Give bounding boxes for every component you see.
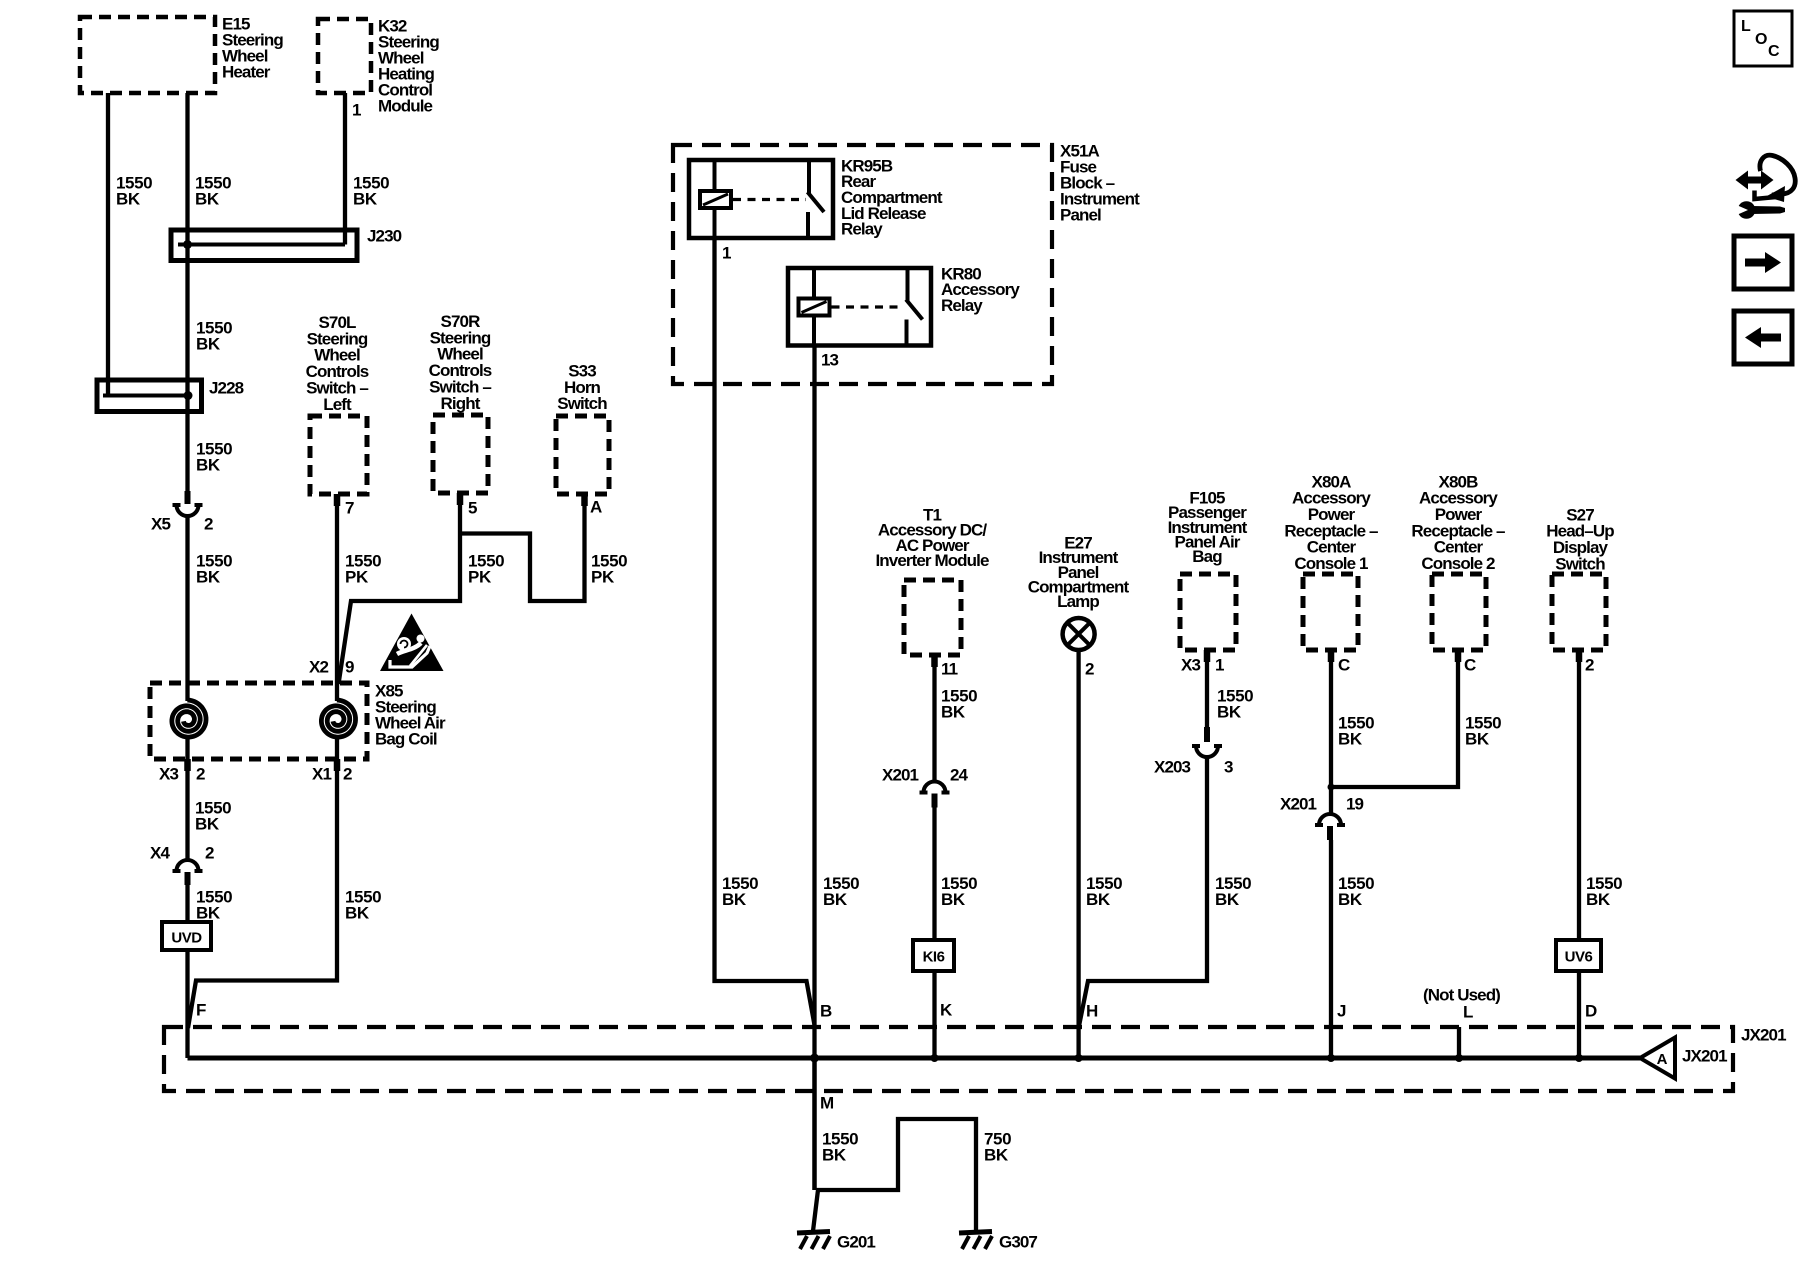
pin stub F105 — [1204, 650, 1211, 662]
label wire 1550 BK (below J230) — [196, 318, 232, 353]
pin stub X80A — [1328, 650, 1335, 662]
svg-text:UV6: UV6 — [1565, 949, 1593, 966]
label JX201 (right of triangle) — [1682, 1046, 1727, 1065]
wire 750 BK to G307 (step) — [816, 1119, 976, 1233]
svg-text:1: 1 — [352, 100, 361, 119]
label S27 — [1546, 505, 1614, 573]
svg-text:3: 3 — [1224, 757, 1233, 776]
ground G307 — [959, 1232, 992, 1250]
label S70R — [429, 312, 492, 413]
label pin 2 at X3 — [196, 764, 205, 783]
component T1 Accessory DC/AC Power Inverter Module (dashed box) — [904, 580, 961, 655]
wire 1550 BK from T1 pin 11 to X201 — [932, 655, 936, 781]
relay KR80 Accessory Relay — [788, 268, 931, 346]
label X201 (T1 branch) — [882, 765, 919, 784]
svg-text:BK: BK — [195, 814, 220, 833]
svg-text:JX201: JX201 — [1741, 1025, 1786, 1044]
label wire 1550 PK (S70L) — [345, 551, 381, 586]
bus wire inside JX201 — [188, 1056, 1641, 1061]
svg-text:(Not Used): (Not Used) — [1423, 985, 1500, 1004]
label E27 — [1028, 533, 1130, 611]
svg-text:19: 19 — [1346, 794, 1364, 813]
component X80A Accessory Power Receptacle - Center Console 1 (dashed box) — [1303, 574, 1358, 650]
wire 1550 BK from E27 pin 2 to cavity H — [1076, 650, 1080, 1058]
wire from UV6 to JX201 cavity D — [1577, 971, 1581, 1058]
label pin 3 at X203 — [1224, 757, 1233, 776]
svg-text:B: B — [820, 1001, 832, 1020]
label X51A — [1060, 141, 1140, 224]
component F105 Passenger Instrument Panel Air Bag (dashed box) — [1180, 574, 1236, 650]
svg-text:Relay: Relay — [841, 220, 883, 239]
coil symbol right (clockspring) — [321, 700, 355, 737]
icon forward arrow box — [1734, 236, 1792, 289]
relay KR95B Rear Compartment Lid Release Relay — [689, 160, 833, 238]
triangle connector A JX201 — [1640, 1038, 1675, 1079]
label X1 (X85 right pin) — [312, 764, 331, 783]
junction dot at cavity J — [1327, 1054, 1335, 1062]
svg-text:Switch: Switch — [557, 394, 607, 413]
wire 1550 BK from F105 to X203 — [1205, 650, 1209, 727]
pin 2 of S27 — [1585, 655, 1594, 674]
svg-text:BK: BK — [345, 903, 370, 922]
wire 1550 BK from X4 to UVD — [185, 885, 189, 922]
splice pack J228 (box) — [97, 380, 202, 412]
svg-text:BK: BK — [353, 189, 378, 208]
label KR95B — [841, 156, 943, 238]
svg-text:2: 2 — [1085, 659, 1094, 678]
svg-text:PK: PK — [468, 567, 492, 586]
coil symbol left (clockspring) — [172, 700, 206, 737]
svg-text:1: 1 — [722, 243, 731, 262]
junction dot X80B joins X80A wire — [1328, 784, 1335, 791]
label wire 1550 BK (to G201) — [822, 1129, 858, 1164]
svg-text:X1: X1 — [312, 764, 331, 783]
wire 1550 BK from X203 to cavity H — [1079, 757, 1207, 1028]
svg-text:G201: G201 — [837, 1232, 875, 1251]
connector X203 (female cup) — [1192, 746, 1222, 757]
svg-text:X2: X2 — [309, 657, 328, 676]
component E15 Steering Wheel Heater (dashed box) — [80, 17, 215, 93]
svg-text:BK: BK — [196, 903, 221, 922]
label pin 2 at X1 — [343, 764, 352, 783]
svg-text:BK: BK — [1465, 729, 1490, 748]
wire 1550 BK from KR80 pin 13 to cavity B and G201 — [812, 346, 816, 1191]
svg-text:D: D — [1585, 1001, 1597, 1020]
svg-text:2: 2 — [196, 764, 205, 783]
svg-text:11: 11 — [941, 659, 958, 678]
component X80B Accessory Power Receptacle - Center Console 2 (dashed box) — [1432, 574, 1486, 650]
label wire 750 BK — [984, 1129, 1011, 1164]
label wire 1550 PK (S33) — [591, 551, 627, 586]
svg-text:13: 13 — [821, 350, 839, 369]
pin 1 of K32 — [352, 100, 361, 119]
svg-text:Console 2: Console 2 — [1421, 554, 1495, 573]
cavity letter B — [820, 1001, 832, 1020]
svg-text:O: O — [1755, 31, 1767, 48]
svg-text:BK: BK — [196, 455, 221, 474]
wire 1550 BK from K32 pin 1 to J230 — [343, 93, 347, 245]
svg-text:BK: BK — [196, 567, 221, 586]
label pin 2 at X4 — [205, 843, 214, 862]
svg-text:BK: BK — [1338, 729, 1363, 748]
svg-text:X3: X3 — [1181, 655, 1200, 674]
connector X203 (male stub) — [1204, 727, 1210, 742]
label G307 — [999, 1232, 1037, 1251]
component S27 Head-Up Display Switch (dashed box) — [1552, 574, 1606, 650]
svg-text:A: A — [590, 497, 602, 516]
label wire 1550 BK (X1 branch) — [345, 887, 381, 922]
label wire 1550 BK (KR95B wire) — [722, 874, 758, 909]
wire 1550 BK from S27 pin 2 to UV6 — [1577, 650, 1581, 940]
svg-text:PK: PK — [345, 567, 369, 586]
label G201 — [837, 1232, 875, 1251]
svg-text:X201: X201 — [1280, 794, 1317, 813]
svg-text:Lamp: Lamp — [1057, 592, 1099, 611]
svg-text:Right: Right — [441, 394, 481, 413]
junction dot at cavity H — [1075, 1054, 1083, 1062]
label (Not Used) — [1423, 985, 1500, 1004]
wire 1550 BK from X80B pin C joining X80A wire — [1331, 650, 1458, 787]
svg-text:Panel: Panel — [1060, 205, 1101, 224]
junction dot at cavity D — [1575, 1054, 1583, 1062]
svg-text:X3: X3 — [159, 764, 178, 783]
svg-text:BK: BK — [823, 890, 848, 909]
option code UV6 (box) — [1556, 940, 1601, 971]
component X51A Fuse Block - Instrument Panel (dashed box) — [673, 145, 1052, 384]
label X201 (X80A branch) — [1280, 794, 1317, 813]
pin 1 of KR95B — [722, 243, 731, 262]
pin stub X80B — [1455, 650, 1462, 662]
pin 11 of T1 — [941, 659, 958, 678]
svg-text:PK: PK — [591, 567, 615, 586]
svg-text:J230: J230 — [367, 226, 402, 245]
svg-text:7: 7 — [345, 498, 354, 517]
label pin 1 at F105 X3 — [1215, 655, 1224, 674]
svg-text:UVD: UVD — [171, 930, 202, 947]
wire 1550 BK from E15 right pin down to X5 (main ground wire) — [185, 93, 189, 504]
svg-text:BK: BK — [1215, 890, 1240, 909]
label X85 — [375, 681, 446, 748]
svg-text:BK: BK — [941, 702, 966, 721]
label X80B — [1411, 472, 1505, 573]
connector X5 (female cup) — [173, 505, 203, 516]
svg-text:Inverter Module: Inverter Module — [875, 551, 989, 570]
svg-text:BK: BK — [116, 189, 141, 208]
label KR80 — [941, 264, 1020, 315]
svg-text:Bag Coil: Bag Coil — [375, 729, 437, 748]
pin stub X85 X1 — [334, 759, 341, 771]
svg-text:2: 2 — [343, 764, 352, 783]
label X203 — [1154, 757, 1191, 776]
label pin 2 at X5 — [204, 514, 213, 533]
label wire 1550 BK (below X4) — [196, 887, 232, 922]
svg-text:C: C — [1338, 655, 1350, 674]
wire 1550 BK from X5 to X85 coil — [185, 516, 189, 701]
connector JX201 (dashed box) — [164, 1027, 1733, 1091]
junction dot at cavity B — [810, 1054, 819, 1063]
connector X201 (male stub, X80A branch) — [1327, 826, 1333, 840]
label E15 — [222, 14, 283, 81]
svg-text:JX201: JX201 — [1682, 1046, 1727, 1065]
svg-text:BK: BK — [196, 334, 221, 353]
label T1 — [875, 505, 989, 570]
junction dot in J230 — [183, 240, 192, 249]
wire 1550 BK from X80A pin C to X201 — [1329, 650, 1333, 813]
wire 1550 PK from S33 pin A join to S70R wire — [462, 494, 585, 601]
junction dot in J228 — [184, 391, 193, 400]
label wire 1550 BK (X80A) — [1338, 713, 1374, 748]
label wire 1550 BK (F105 lower) — [1215, 874, 1251, 909]
label wire 1550 BK (X80B) — [1465, 713, 1501, 748]
label wire 1550 BK (below J228) — [196, 439, 232, 474]
option code UVD (box) — [162, 922, 211, 950]
pin stub S70R — [457, 493, 464, 505]
label wire 1550 BK (E15 right) — [195, 173, 231, 208]
wire from KI6 to JX201 cavity K — [932, 971, 936, 1058]
svg-text:K: K — [940, 1000, 953, 1019]
label J228 — [209, 378, 244, 397]
connector X201 (female cup, T1 branch) — [920, 782, 950, 793]
connector X4 (female cup) — [173, 860, 203, 871]
label S33 — [557, 361, 607, 413]
pin 13 of KR80 — [821, 350, 839, 369]
component S70L Steering Wheel Controls Switch - Left (dashed box) — [310, 416, 367, 494]
component K32 Steering Wheel Heating Control Module (dashed box) — [318, 19, 371, 93]
svg-text:A: A — [1657, 1051, 1668, 1068]
wire 1550 BK from KR95B pin 1 to cavity B — [715, 238, 815, 1025]
label wire 1550 BK (S27) — [1586, 874, 1622, 909]
wire 1550 PK from S70R pin 5 join to X2 — [339, 493, 461, 684]
svg-text:5: 5 — [468, 498, 477, 517]
label wire 1550 BK (E27) — [1086, 874, 1122, 909]
label wire 1550 PK (S70R) — [468, 551, 504, 586]
svg-text:2: 2 — [205, 843, 214, 862]
connector X4 (male stub) — [185, 872, 191, 885]
label wire 1550 BK (T1 upper) — [941, 686, 977, 721]
wire 1550 PK from S70L pin 7 to X2 — [335, 494, 339, 701]
pin 7 of S70L — [345, 498, 354, 517]
svg-text:BK: BK — [1086, 890, 1111, 909]
svg-text:9: 9 — [345, 657, 354, 676]
junction dot at cavity L — [1455, 1054, 1463, 1062]
svg-text:L: L — [1741, 18, 1751, 35]
cavity letter J — [1337, 1001, 1346, 1020]
label wire 1550 BK (X80A lower) — [1338, 874, 1374, 909]
label K32 — [378, 16, 439, 115]
option code KI6 (box) — [913, 940, 954, 971]
icon LOC (location box) — [1734, 11, 1792, 66]
pin 5 of S70R — [468, 498, 477, 517]
cavity letter K — [940, 1000, 953, 1019]
svg-text:C: C — [1464, 655, 1476, 674]
svg-text:KI6: KI6 — [923, 949, 945, 966]
wire 1550 BK from X201 to cavity J — [1329, 840, 1333, 1058]
svg-text:X201: X201 — [882, 765, 919, 784]
svg-text:2: 2 — [1585, 655, 1594, 674]
label X80A — [1284, 472, 1378, 573]
label wire 1550 BK (E15 left) — [116, 173, 152, 208]
svg-text:1: 1 — [1215, 655, 1224, 674]
pin 2 of E27 — [1085, 659, 1094, 678]
svg-text:Bag: Bag — [1192, 547, 1222, 566]
svg-text:BK: BK — [822, 1145, 847, 1164]
svg-text:M: M — [820, 1093, 834, 1112]
svg-text:Left: Left — [323, 395, 352, 414]
component S70R Steering Wheel Controls Switch - Right (dashed box) — [433, 415, 488, 493]
cavity letter D — [1585, 1001, 1597, 1020]
svg-text:BK: BK — [984, 1145, 1009, 1164]
svg-text:BK: BK — [941, 890, 966, 909]
label J230 — [367, 226, 402, 245]
wire 1550 BK from X85 X3 to X4 — [185, 739, 189, 860]
svg-text:BK: BK — [1217, 702, 1242, 721]
svg-text:H: H — [1086, 1001, 1098, 1020]
pin stub X85 X3 — [184, 759, 191, 771]
label X4 — [150, 843, 170, 862]
label pin 24 at X201 — [950, 765, 969, 784]
svg-text:C: C — [1768, 43, 1780, 60]
label wire 1550 BK (below X5) — [196, 551, 232, 586]
svg-text:Relay: Relay — [941, 296, 983, 315]
component X85 Steering Wheel Air Bag Coil (dashed box) — [150, 683, 367, 759]
label wire 1550 BK (F105 upper) — [1217, 686, 1253, 721]
cavity letter L — [1463, 1002, 1473, 1021]
svg-text:J: J — [1337, 1001, 1346, 1020]
label JX201 (top right) — [1741, 1025, 1786, 1044]
wire 1550 BK from X85 X1 down and left to main wire — [188, 739, 337, 1028]
wire 1550 BK from cavity M to G201 — [813, 1058, 818, 1231]
pin C of X80B — [1464, 655, 1476, 674]
label wire 1550 BK (below X3) — [195, 798, 231, 833]
svg-text:BK: BK — [1338, 890, 1363, 909]
svg-text:Heater: Heater — [222, 62, 271, 81]
svg-text:G307: G307 — [999, 1232, 1037, 1251]
label wire 1550 BK (K32) — [353, 173, 389, 208]
cavity letter F — [196, 1000, 206, 1019]
component S33 Horn Switch (dashed box) — [556, 416, 609, 494]
cavity letter H — [1086, 1001, 1098, 1020]
ground G201 — [797, 1232, 830, 1250]
svg-text:2: 2 — [204, 514, 213, 533]
svg-text:X203: X203 — [1154, 757, 1191, 776]
svg-text:24: 24 — [950, 765, 969, 784]
svg-text:BK: BK — [195, 189, 220, 208]
icon back arrow box — [1734, 311, 1792, 364]
wire 1550 BK from X201 to KI6 — [932, 808, 936, 941]
label S70L — [306, 313, 369, 414]
svg-text:L: L — [1463, 1002, 1473, 1021]
label X2 — [309, 657, 328, 676]
svg-text:BK: BK — [1586, 890, 1611, 909]
label wire 1550 BK (T1 lower) — [941, 874, 977, 909]
label F105 — [1168, 488, 1248, 566]
label X3 (F105 pin) — [1181, 655, 1200, 674]
svg-text:Switch: Switch — [1555, 554, 1605, 573]
junction dot at cavity K — [931, 1054, 939, 1062]
pin stub S70L — [334, 494, 341, 506]
pin stub T1 — [931, 655, 938, 667]
icon wiring repair (arrows and wrench) — [1732, 155, 1795, 219]
label X3 (X85 left pin) — [159, 764, 178, 783]
pin stub S27 — [1576, 650, 1583, 662]
wire 1550 BK from E15 left pin to J228 — [106, 93, 110, 396]
svg-text:J228: J228 — [209, 378, 244, 397]
lamp E27 Instrument Panel Compartment Lamp (symbol) — [1063, 618, 1095, 650]
svg-text:X5: X5 — [151, 514, 170, 533]
stub wire at cavity L (not used) — [1457, 1027, 1461, 1058]
connector X201 (female cup, X80A branch) — [1315, 814, 1345, 825]
svg-text:Console 1: Console 1 — [1294, 554, 1368, 573]
cavity letter M — [820, 1093, 834, 1112]
label pin 9 at X2 — [345, 657, 354, 676]
connector X201 (male stub, T1 branch) — [932, 794, 938, 808]
svg-text:X4: X4 — [150, 843, 170, 862]
label pin 19 at X201 — [1346, 794, 1364, 813]
label X5 — [151, 514, 170, 533]
pin stub S33 — [581, 494, 588, 506]
svg-text:BK: BK — [722, 890, 747, 909]
connector X5 (male stub) — [185, 491, 191, 504]
svg-text:F: F — [196, 1000, 206, 1019]
air bag warning triangle symbol — [380, 614, 444, 672]
splice pack J230 (box) — [171, 230, 357, 261]
pin A of S33 — [590, 497, 602, 516]
pin C of X80A — [1338, 655, 1350, 674]
svg-text:Module: Module — [378, 96, 433, 115]
wire from UVD to JX201 cavity F — [185, 950, 189, 1058]
label wire 1550 BK (KR80 wire) — [823, 874, 859, 909]
